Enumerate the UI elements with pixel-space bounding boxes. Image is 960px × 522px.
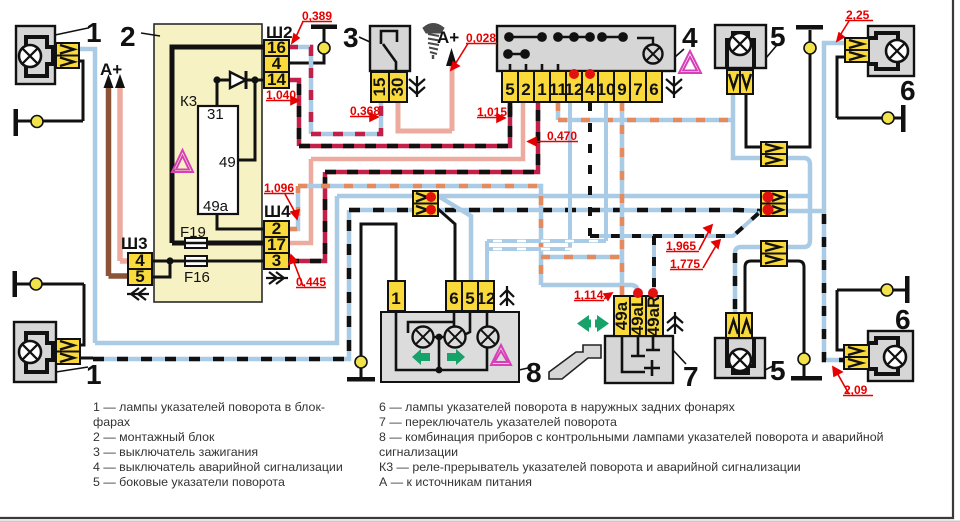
svg-text:14: 14 xyxy=(267,70,286,89)
svg-text:1: 1 xyxy=(391,289,400,308)
svg-text:8: 8 xyxy=(526,357,542,388)
svg-text:5: 5 xyxy=(465,289,474,308)
svg-text:8 — комбинация приборов с конт: 8 — комбинация приборов с контрольными л… xyxy=(379,430,884,444)
svg-text:15: 15 xyxy=(370,78,389,97)
svg-text:1: 1 xyxy=(537,80,546,99)
svg-text:6 — лампы указателей поворота: 6 — лампы указателей поворота в наружных… xyxy=(379,400,736,414)
svg-text:5: 5 xyxy=(135,267,144,286)
svg-text:10: 10 xyxy=(597,80,616,99)
svg-text:6: 6 xyxy=(900,75,916,106)
svg-text:30: 30 xyxy=(388,78,407,97)
svg-text:31: 31 xyxy=(207,106,224,123)
svg-text:49aR: 49aR xyxy=(644,296,663,337)
svg-text:12: 12 xyxy=(565,80,584,99)
svg-text:4 — выключатель аварийной сигн: 4 — выключатель аварийной сигнализации xyxy=(93,460,343,474)
svg-text:1: 1 xyxy=(86,17,102,48)
svg-text:А+: А+ xyxy=(437,28,459,47)
svg-text:1: 1 xyxy=(86,359,102,390)
svg-text:49: 49 xyxy=(219,154,236,171)
svg-text:5: 5 xyxy=(505,80,514,99)
svg-text:6: 6 xyxy=(649,80,658,99)
svg-text:F19: F19 xyxy=(180,224,206,241)
svg-text:А+: А+ xyxy=(100,60,122,79)
svg-text:2: 2 xyxy=(120,21,136,52)
svg-text:3: 3 xyxy=(272,251,281,270)
svg-text:3 — выключатель зажигания: 3 — выключатель зажигания xyxy=(93,445,258,459)
svg-text:К3: К3 xyxy=(180,93,197,110)
svg-text:сигнализации: сигнализации xyxy=(379,445,458,459)
svg-text:6: 6 xyxy=(895,304,911,335)
svg-text:3: 3 xyxy=(343,22,359,53)
svg-text:5: 5 xyxy=(770,21,786,52)
svg-text:5 — боковые указатели поворота: 5 — боковые указатели поворота xyxy=(93,475,285,489)
svg-text:5: 5 xyxy=(770,355,786,386)
svg-text:49a: 49a xyxy=(203,198,229,215)
svg-text:12: 12 xyxy=(477,289,496,308)
svg-text:4: 4 xyxy=(682,22,698,53)
svg-text:6: 6 xyxy=(449,289,458,308)
svg-text:1 — лампы указателей поворота: 1 — лампы указателей поворота в блок- xyxy=(93,400,325,414)
svg-text:9: 9 xyxy=(617,80,626,99)
svg-text:4: 4 xyxy=(585,80,595,99)
svg-text:7: 7 xyxy=(633,80,642,99)
svg-text:А — к источникам питания: А — к источникам питания xyxy=(379,475,532,489)
svg-text:фарах: фарах xyxy=(93,415,131,429)
svg-text:F16: F16 xyxy=(184,269,210,286)
svg-text:2: 2 xyxy=(521,80,530,99)
svg-text:7: 7 xyxy=(683,361,699,392)
svg-text:7 — переключатель указателей п: 7 — переключатель указателей поворота xyxy=(379,415,617,429)
svg-text:2 — монтажный блок: 2 — монтажный блок xyxy=(93,430,215,444)
svg-text:К3 — реле-прерыватель указател: К3 — реле-прерыватель указателей поворот… xyxy=(379,460,801,474)
